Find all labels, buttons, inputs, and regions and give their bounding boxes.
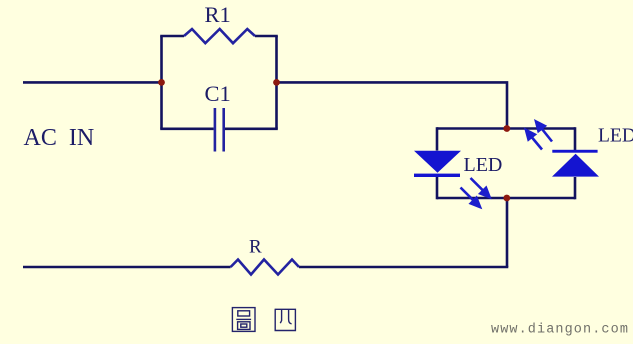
svg-text:AC IN: AC IN (24, 125, 95, 151)
svg-text:R1: R1 (205, 2, 231, 27)
svg-text:C1: C1 (205, 81, 231, 106)
svg-text:LED: LED (464, 154, 503, 176)
svg-text:LED: LED (598, 126, 633, 147)
svg-text:R: R (249, 237, 262, 258)
svg-text:www.diangon.com: www.diangon.com (491, 323, 629, 338)
